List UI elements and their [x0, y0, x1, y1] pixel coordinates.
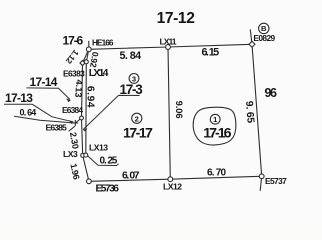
- wire HE166-E6383: [83, 49, 89, 63]
- leader 0.64: [14, 116, 72, 123]
- svg-text:B: B: [261, 24, 267, 33]
- wire LX14-LX13: [85, 62, 88, 155]
- marker circled 1: [210, 114, 220, 124]
- leader 0.25: [86, 155, 118, 166]
- svg-text:17-14: 17-14: [30, 75, 58, 89]
- wire right boundary E0829-E5737 with extensions: [250, 30, 261, 191]
- wire LX3-E5736: [83, 155, 89, 181]
- svg-text:LX14: LX14: [89, 68, 109, 79]
- svg-text:6. 15: 6. 15: [202, 46, 220, 58]
- svg-text:LX13: LX13: [89, 142, 108, 152]
- svg-text:E6383: E6383: [63, 68, 85, 78]
- marker circled 2: [132, 113, 142, 123]
- node LX11: [166, 45, 171, 50]
- leader 17-3: [83, 95, 139, 129]
- node E6385 plus mark: [72, 120, 78, 126]
- svg-text:6.94: 6.94: [84, 86, 95, 108]
- svg-text:17-16: 17-16: [203, 125, 231, 141]
- leader 17-13: [4, 104, 73, 122]
- node HE166: [86, 47, 91, 52]
- svg-text:LX11: LX11: [160, 36, 177, 46]
- svg-text:E6384: E6384: [62, 105, 83, 115]
- svg-text:0. 25: 0. 25: [100, 155, 118, 166]
- wire top boundary HE166-LX11-E0829: [89, 44, 252, 49]
- wire tick above HE166: [88, 41, 90, 46]
- svg-text:0. 64: 0. 64: [20, 107, 37, 117]
- parcel blob around 17-16: [193, 107, 236, 145]
- svg-text:LX12: LX12: [163, 181, 182, 191]
- svg-text:9.06: 9.06: [174, 101, 185, 119]
- svg-text:17-3: 17-3: [120, 82, 143, 97]
- node LX12: [168, 177, 173, 182]
- wire stub below E6385: [69, 127, 75, 132]
- node E5736: [87, 179, 92, 184]
- wire HE166-LX14: [86, 49, 89, 62]
- svg-text:6. 70: 6. 70: [207, 167, 226, 178]
- svg-text:17-13: 17-13: [5, 91, 33, 105]
- node LX13: [84, 153, 88, 157]
- wire bottom boundary E5736-LX12-E5737: [89, 176, 262, 181]
- node E6384: [80, 116, 84, 120]
- svg-text:5. 84: 5. 84: [120, 50, 142, 62]
- svg-text:E5736: E5736: [96, 184, 120, 195]
- svg-text:E0829: E0829: [253, 33, 275, 43]
- svg-text:HE166: HE166: [92, 39, 114, 48]
- svg-text:4.13: 4.13: [73, 79, 84, 98]
- marker circled 3: [129, 74, 139, 84]
- node E5737: [259, 174, 264, 179]
- node E0829: [249, 41, 255, 47]
- svg-text:E6385: E6385: [46, 123, 67, 133]
- svg-text:6. 07: 6. 07: [122, 171, 140, 182]
- svg-text:17-6: 17-6: [63, 33, 84, 47]
- wire middle vertical LX11-LX12: [168, 47, 170, 179]
- svg-text:17-12: 17-12: [157, 10, 196, 27]
- wire E6385-E6384 tie: [75, 118, 81, 123]
- svg-text:9. 65: 9. 65: [243, 101, 256, 124]
- wire E6384-LX3: [82, 118, 83, 155]
- marker circled B: [259, 23, 269, 33]
- svg-text:17-17: 17-17: [123, 125, 153, 141]
- leader 17-14: [27, 88, 71, 100]
- node LX3: [81, 153, 85, 157]
- svg-text:2: 2: [135, 114, 139, 123]
- node E6383: [80, 60, 85, 65]
- wire E6383-E6384: [82, 63, 83, 118]
- svg-text:E5737: E5737: [265, 176, 287, 186]
- svg-text:LX3: LX3: [63, 149, 78, 159]
- svg-text:96: 96: [265, 86, 278, 100]
- node LX14: [84, 60, 88, 64]
